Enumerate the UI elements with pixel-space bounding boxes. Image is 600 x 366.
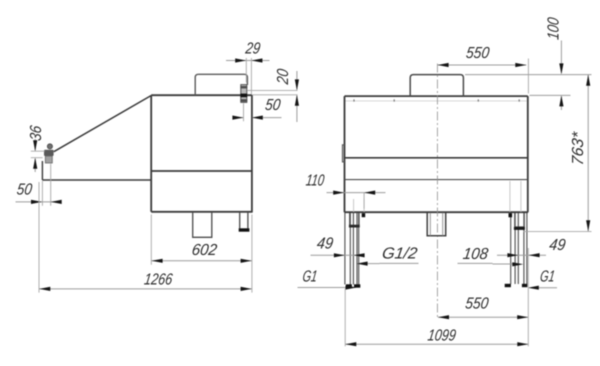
left cluster feet bbox=[346, 284, 352, 287]
svg-text:49: 49 bbox=[316, 235, 335, 253]
label 108 leader bbox=[493, 263, 515, 265]
left view stub 1 (under box) bbox=[193, 213, 212, 238]
hidden pipe line inside box (right) bbox=[510, 181, 521, 212]
svg-text:20: 20 bbox=[274, 68, 292, 86]
svg-text:1099: 1099 bbox=[427, 326, 458, 344]
svg-text:108: 108 bbox=[462, 245, 490, 263]
svg-text:G1: G1 bbox=[539, 268, 556, 286]
dim 763* line bbox=[587, 75, 589, 232]
front view band line 1 bbox=[345, 157, 528, 159]
label G1/2 leader bbox=[366, 263, 380, 265]
svg-text:1266: 1266 bbox=[143, 270, 174, 288]
svg-text:G1/2: G1/2 bbox=[381, 244, 419, 262]
faint inner line under top edge bbox=[346, 100, 528, 102]
front view main box bbox=[344, 96, 528, 212]
svg-text:50: 50 bbox=[264, 96, 282, 114]
label G1/2 underline bbox=[380, 262, 419, 264]
center stub under front view bbox=[427, 213, 446, 236]
dim 50 (right) line bbox=[233, 117, 282, 119]
dim 29 line bbox=[226, 60, 270, 62]
label G1 (right) leader bbox=[536, 287, 557, 289]
dim 1266 line bbox=[39, 288, 252, 290]
svg-text:G1: G1 bbox=[301, 268, 318, 286]
dim 50 (right) arrows bbox=[232, 116, 262, 120]
centerline (dash-dot) of chimney bbox=[436, 64, 438, 318]
front view left tab bbox=[343, 145, 345, 162]
dim 29 extension lines bbox=[246, 58, 251, 94]
left view main box bbox=[151, 95, 252, 212]
dim 100 extension lines bbox=[465, 75, 592, 96]
dim 550 (bottom) arrows bbox=[438, 315, 528, 319]
dim 29 arrows bbox=[235, 58, 262, 62]
dim 602 arrows bbox=[152, 259, 252, 263]
left view chimney top box bbox=[195, 74, 247, 95]
svg-text:110: 110 bbox=[305, 172, 326, 190]
front view chimney bbox=[410, 75, 463, 97]
dim 50 (bottom left) arrows bbox=[31, 200, 62, 204]
label G1 (left) leader bbox=[298, 287, 347, 289]
dim 110 extension line bbox=[363, 193, 365, 209]
dim 550 (top) arrows bbox=[438, 63, 527, 67]
dim 100 line and arrows bbox=[560, 41, 562, 111]
svg-text:50: 50 bbox=[16, 181, 34, 199]
top fitting (flue nipple) on left view bbox=[240, 85, 247, 103]
canopy bottom line bbox=[42, 179, 151, 181]
left leg cluster pipes bbox=[345, 213, 359, 285]
dim 36 extension lines bbox=[31, 151, 45, 158]
canopy left edge bbox=[41, 161, 43, 180]
right cluster black square bbox=[509, 213, 513, 217]
label 108 underline bbox=[458, 262, 493, 264]
dim 49 (left) line bbox=[311, 254, 364, 256]
dim 602 line bbox=[151, 260, 252, 262]
svg-text:550: 550 bbox=[464, 295, 490, 313]
svg-text:763*: 763* bbox=[569, 130, 587, 166]
dim 1266 arrows bbox=[39, 287, 251, 291]
svg-text:602: 602 bbox=[191, 241, 219, 259]
left cluster black square bbox=[362, 213, 366, 217]
right extension for 550/1099 bbox=[527, 248, 529, 346]
dim 50 (bottom left) line bbox=[16, 201, 61, 203]
dim 50 (bottom left) extension lines bbox=[42, 164, 50, 206]
dim 763* arrows bbox=[586, 75, 590, 232]
left G1/2 stub bbox=[350, 213, 359, 227]
dim 1099 arrows bbox=[345, 342, 528, 346]
dim 50 (right) extension line bbox=[243, 103, 245, 121]
dim 550 (top) right extension bbox=[527, 59, 529, 94]
right cluster feet bbox=[505, 284, 511, 287]
dim 1099 left extension bbox=[344, 289, 346, 347]
dim 550 (top) line bbox=[438, 64, 527, 66]
dim 36 line and arrows bbox=[34, 139, 36, 172]
svg-text:49: 49 bbox=[548, 236, 567, 254]
svg-text:550: 550 bbox=[465, 44, 491, 62]
dim 20 line and arrows bbox=[296, 71, 298, 122]
svg-text:29: 29 bbox=[244, 40, 262, 58]
dim 110 line bbox=[327, 192, 386, 194]
dim 1099 line bbox=[345, 343, 528, 345]
svg-text:36: 36 bbox=[27, 124, 45, 142]
dim 110 arrows bbox=[333, 191, 375, 195]
dim 49 (right) line bbox=[497, 254, 546, 256]
right G1 stub bbox=[515, 213, 524, 227]
left view stub 2 with black cap bbox=[240, 213, 248, 229]
left view divider line bbox=[151, 170, 252, 172]
dim 602 extension lines bbox=[151, 215, 252, 293]
dim 1266 extension line (left) bbox=[38, 182, 40, 293]
right leg cluster pipes bbox=[511, 213, 527, 284]
dim 550 (bottom) line bbox=[438, 316, 528, 318]
canopy slope line bbox=[54, 96, 151, 152]
dim 20 extension lines bbox=[248, 90, 298, 94]
dim 49 (left) arrows bbox=[334, 253, 365, 257]
svg-text:100: 100 bbox=[545, 16, 563, 41]
dim 49 (right) arrows bbox=[507, 253, 539, 257]
left fitting (drain nipple) on canopy bbox=[44, 144, 54, 163]
dim 763* bottom extension bbox=[524, 231, 592, 233]
hidden pipe line inside box (left) bbox=[354, 199, 365, 212]
front view band line 2 bbox=[345, 179, 528, 181]
screw dots under top edge bbox=[354, 99, 519, 101]
